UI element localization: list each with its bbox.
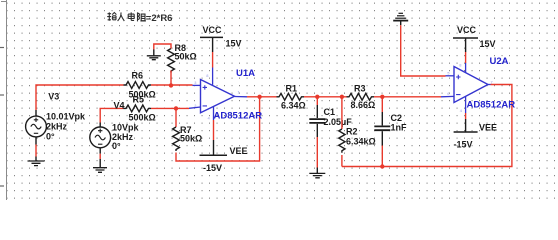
svg-text:15V: 15V	[480, 39, 496, 49]
svg-text:U1A: U1A	[236, 68, 255, 79]
svg-text:8.66Ω: 8.66Ω	[351, 100, 376, 110]
svg-text:C1: C1	[324, 107, 336, 117]
svg-text:AD8512AR: AD8512AR	[467, 99, 516, 110]
svg-text:C2: C2	[391, 113, 403, 123]
svg-text:R1: R1	[286, 83, 298, 93]
svg-text:R6: R6	[132, 71, 144, 81]
svg-text:R3: R3	[354, 83, 366, 93]
svg-text:6.34Ω: 6.34Ω	[281, 101, 306, 111]
svg-text:VEE: VEE	[479, 122, 497, 132]
svg-text:VCC: VCC	[203, 25, 223, 35]
svg-text:VCC: VCC	[457, 25, 477, 35]
svg-text:V3: V3	[48, 91, 59, 101]
svg-text:15V: 15V	[226, 39, 242, 49]
svg-text:50kΩ: 50kΩ	[180, 133, 202, 143]
svg-text:10Vpk: 10Vpk	[112, 122, 140, 132]
svg-text:6.34kΩ: 6.34kΩ	[346, 137, 376, 147]
svg-text:R5: R5	[133, 94, 145, 104]
svg-text:50kΩ: 50kΩ	[175, 52, 197, 62]
svg-text:R2: R2	[346, 127, 358, 137]
svg-text:AD8512AR: AD8512AR	[214, 110, 263, 121]
svg-text:0°: 0°	[112, 141, 121, 151]
svg-text:0°: 0°	[46, 132, 55, 142]
svg-text:=2*R6: =2*R6	[146, 13, 173, 24]
svg-text:V4: V4	[114, 101, 125, 111]
svg-text:2.05µF: 2.05µF	[324, 117, 353, 127]
svg-text:-15V: -15V	[454, 139, 473, 149]
svg-text:U2A: U2A	[490, 56, 509, 67]
svg-text:2kHz: 2kHz	[46, 122, 68, 132]
svg-text:-15V: -15V	[203, 163, 222, 173]
svg-text:500kΩ: 500kΩ	[129, 112, 156, 122]
svg-text:VEE: VEE	[230, 146, 248, 156]
svg-text:1nF: 1nF	[391, 123, 408, 133]
svg-text:10.01Vpk: 10.01Vpk	[46, 112, 86, 122]
